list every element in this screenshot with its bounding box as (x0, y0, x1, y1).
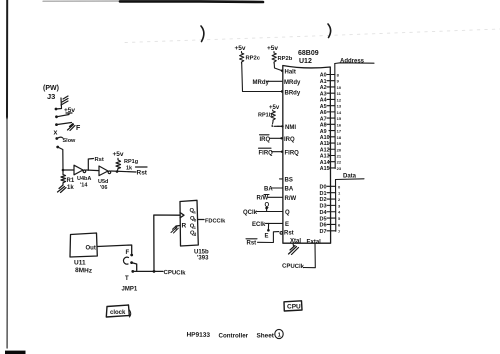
svg-text:22: 22 (337, 160, 342, 165)
node Rst tap (88, 159, 93, 171)
J3 pin 3 (55, 123, 58, 126)
wire pin6 down to inverter input (58, 147, 63, 170)
svg-text:'393: '393 (197, 256, 209, 262)
svg-text:CPU: CPU (287, 304, 301, 311)
svg-text:U4bA: U4bA (77, 176, 91, 182)
svg-text:Out: Out (86, 246, 96, 252)
svg-text:E: E (265, 234, 269, 240)
svg-text:7: 7 (338, 229, 341, 234)
svg-text:Xtal: Xtal (290, 239, 301, 245)
svg-text:68B09: 68B09 (298, 50, 319, 57)
node junction pullup (116, 170, 119, 173)
wire Qb out FDCClk (198, 219, 204, 221)
svg-text:A0: A0 (320, 73, 327, 79)
svg-text:RP2c: RP2c (246, 56, 261, 62)
wire RP2c to BRdy pin (242, 63, 282, 92)
pin IRQ (280, 137, 282, 139)
svg-text:A5: A5 (320, 104, 327, 110)
svg-text:D6: D6 (320, 223, 327, 229)
JMP1 pin 3 (131, 270, 134, 273)
chassis ground hatch (61, 96, 68, 105)
svg-text:D7: D7 (320, 229, 327, 235)
svg-text:9: 9 (337, 79, 340, 84)
svg-text:A2: A2 (320, 85, 327, 91)
svg-text:8MHz: 8MHz (75, 267, 93, 275)
clock chevron (180, 213, 184, 218)
address bus top wire (335, 62, 374, 65)
svg-text:U11: U11 (74, 260, 86, 267)
svg-text:A15: A15 (320, 166, 330, 172)
svg-text:c: c (194, 225, 197, 230)
svg-text:(PW): (PW) (43, 85, 59, 92)
address bus vertical (334, 64, 336, 169)
svg-text:A12: A12 (320, 147, 330, 153)
svg-text:QClk: QClk (243, 210, 258, 216)
scan edge: bottom-left black bar (5, 351, 26, 354)
svg-text:Address: Address (340, 59, 365, 65)
svg-text:1k: 1k (126, 166, 133, 172)
svg-text:Extal: Extal (307, 240, 322, 246)
ground under XTAL (292, 243, 295, 246)
svg-text:A11: A11 (320, 141, 329, 147)
svg-text:Slow: Slow (63, 138, 77, 144)
svg-text:Q: Q (265, 203, 270, 209)
JMP1 pin 2 (130, 261, 133, 264)
ground (58, 185, 67, 193)
svg-text:D5: D5 (320, 216, 327, 222)
svg-text:+5v: +5v (267, 45, 278, 52)
resistor R1 (61, 171, 66, 185)
svg-text:17: 17 (337, 129, 342, 134)
svg-text:U12: U12 (299, 58, 312, 65)
oscillator U11 box (70, 233, 97, 257)
svg-text:+5v: +5v (269, 105, 280, 111)
svg-text:clock: clock (110, 310, 126, 316)
node E tap (267, 223, 269, 230)
svg-text:D1: D1 (320, 191, 327, 197)
wire pin1 to chassis ground (56, 98, 62, 109)
wire pin5 squiggle (57, 137, 63, 138)
svg-text:3: 3 (338, 203, 341, 208)
svg-text:a: a (193, 210, 196, 215)
svg-text:IRQ: IRQ (284, 137, 295, 143)
svg-text:d: d (194, 232, 197, 237)
pen mark ) left (201, 26, 204, 42)
inverter U5D (99, 166, 111, 176)
svg-text:Halt: Halt (285, 70, 296, 76)
svg-text:IRQ: IRQ (260, 137, 271, 143)
J3 pin 1 (55, 108, 58, 111)
svg-text:R: R (182, 223, 187, 230)
svg-text:13: 13 (337, 104, 342, 109)
svg-text:14: 14 (337, 110, 342, 115)
svg-text:19: 19 (337, 141, 342, 146)
svg-text:Rst: Rst (95, 157, 104, 163)
svg-text:0: 0 (338, 184, 341, 189)
node CPUCLK junction (153, 270, 156, 273)
node junction (62, 169, 65, 172)
svg-text:+5v: +5v (113, 151, 124, 158)
net Rst-bar to pin (246, 238, 257, 240)
svg-text:A13: A13 (320, 154, 330, 160)
svg-text:E: E (285, 222, 289, 228)
svg-text:MRdy: MRdy (284, 80, 301, 86)
svg-text:A6: A6 (320, 110, 327, 116)
svg-text:F: F (76, 125, 81, 132)
data bus vertical (335, 180, 337, 232)
svg-text:4: 4 (338, 210, 341, 215)
svg-text:D0: D0 (320, 185, 327, 191)
svg-text:Q: Q (285, 210, 290, 216)
pin Halt (281, 70, 283, 72)
svg-text:5: 5 (338, 216, 341, 221)
wire RP1b to NMI (272, 122, 282, 127)
wire CPUCLK net (133, 270, 163, 272)
pin NMI (281, 125, 283, 127)
chassis ground hatch F (68, 124, 76, 131)
wire U5D out (111, 171, 136, 172)
svg-text:16: 16 (337, 122, 342, 127)
svg-text:20: 20 (337, 147, 342, 152)
svg-text:D2: D2 (320, 197, 327, 203)
wire EXTAL to CPUCLK (304, 243, 316, 268)
svg-text:Rst: Rst (137, 170, 148, 177)
ground hatch (171, 226, 178, 233)
svg-text:1k: 1k (67, 185, 74, 191)
svg-text:'06: '06 (100, 185, 107, 191)
wire to U4A (63, 169, 74, 171)
svg-text:2: 2 (338, 197, 341, 202)
svg-text:+5v: +5v (235, 45, 246, 52)
svg-text:R/W: R/W (285, 196, 297, 202)
resistor RP1g pull-up (116, 158, 121, 170)
svg-text:Controller: Controller (219, 333, 249, 340)
jumper shunt arc (123, 257, 128, 264)
svg-text:R1: R1 (67, 178, 75, 184)
wire pin3 to ground F (57, 123, 72, 125)
wire pin2 jog down (132, 263, 137, 272)
svg-text:A7: A7 (320, 116, 327, 122)
svg-text:R/W: R/W (257, 196, 269, 202)
svg-text:NMI: NMI (285, 125, 296, 131)
svg-text:15: 15 (337, 116, 342, 121)
J3 pin 5 (55, 137, 58, 140)
svg-text:BA: BA (285, 187, 294, 193)
svg-text:Rst: Rst (247, 241, 257, 247)
svg-text:10: 10 (337, 85, 342, 90)
svg-text:6: 6 (338, 222, 341, 227)
JMP1 pin F (130, 254, 133, 257)
wire RP2b to Halt pin (274, 63, 281, 71)
svg-text:RP1g: RP1g (124, 159, 138, 165)
svg-text:A14: A14 (320, 160, 330, 166)
J3 pin 6 (56, 146, 59, 149)
svg-text:BA: BA (264, 187, 273, 193)
svg-text:RP1b: RP1b (258, 113, 273, 119)
svg-text:RP2b: RP2b (278, 56, 293, 62)
svg-text:D3: D3 (320, 204, 327, 210)
svg-text:18: 18 (337, 135, 342, 140)
svg-text:T: T (125, 276, 129, 282)
svg-text:b: b (194, 218, 197, 223)
svg-text:x: x (54, 130, 58, 137)
pin FIRQ (281, 151, 283, 153)
svg-text:1: 1 (338, 191, 341, 196)
svg-text:BRdy: BRdy (285, 91, 301, 97)
svg-text:23: 23 (337, 166, 342, 171)
J3 pin 2 (55, 115, 58, 118)
svg-text:11: 11 (337, 91, 342, 96)
node Q tap (266, 208, 268, 212)
svg-text:12: 12 (337, 97, 342, 102)
svg-text:EClk: EClk (252, 222, 266, 228)
svg-text:21: 21 (337, 153, 342, 158)
svg-text:Data: Data (343, 174, 357, 180)
svg-text:J3: J3 (47, 92, 55, 101)
svg-text:A9: A9 (320, 129, 327, 135)
CPU label box (284, 301, 302, 311)
svg-text:A3: A3 (320, 91, 327, 97)
svg-text:JMP1: JMP1 (122, 287, 138, 293)
scan edge: top bar (43, 0, 140, 2)
scan artifact: faint dashed line (125, 29, 500, 43)
svg-text:Sheet: Sheet (257, 332, 275, 339)
svg-text:D4: D4 (320, 210, 328, 216)
pen mark ) right (328, 24, 331, 38)
clock label box (106, 305, 129, 317)
net IRQ-bar (260, 134, 270, 136)
svg-text:CPUClk: CPUClk (163, 270, 186, 277)
wire Out to JMP1 (97, 245, 131, 254)
wire U4A out (86, 169, 99, 172)
svg-text:A1: A1 (320, 79, 327, 85)
wire R to ground (176, 226, 180, 230)
svg-text:HP9133: HP9133 (186, 332, 210, 339)
svg-text:FIRQ: FIRQ (285, 151, 300, 157)
pin BS stub (280, 178, 284, 180)
pin BRdy (281, 90, 283, 92)
svg-text:FIRQ: FIRQ (259, 151, 274, 157)
CPU box (283, 66, 331, 244)
wire pin2 to +5V (57, 113, 73, 117)
svg-text:A4: A4 (320, 98, 327, 104)
svg-text:FDCClk: FDCClk (205, 218, 226, 224)
svg-text:CPUClk: CPUClk (282, 264, 305, 271)
svg-text:A10: A10 (320, 135, 330, 141)
net label Rst-bar (136, 166, 148, 168)
svg-text:A8: A8 (320, 123, 327, 129)
svg-text:'14: '14 (80, 183, 88, 189)
data bus top wire (336, 178, 365, 181)
wire CPUCLK up to U15b (154, 215, 180, 271)
pin RST bubble (280, 232, 283, 235)
svg-text:F: F (126, 250, 130, 256)
inverter U4A (74, 165, 86, 175)
counter U15b box (180, 200, 198, 246)
svg-text:8: 8 (337, 73, 340, 78)
scan edge: left vertical line (6, 0, 8, 118)
svg-text:Rst: Rst (284, 231, 294, 237)
net FIRQ-bar (259, 147, 272, 149)
svg-text:BS: BS (285, 178, 293, 184)
